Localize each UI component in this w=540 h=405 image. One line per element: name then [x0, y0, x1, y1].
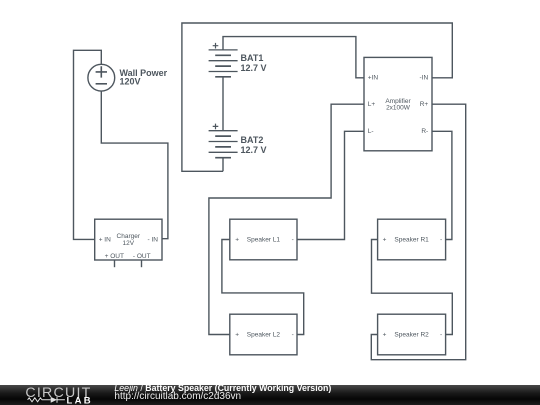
speaker L1 box [230, 219, 297, 260]
wire speaker L1 + to speaker L2 - [222, 240, 304, 335]
voltage source V1 circle [88, 64, 115, 91]
svg-text:2x100W: 2x100W [386, 104, 411, 111]
V1 plus sign [96, 66, 107, 84]
wire V1- bottom to charger -IN [101, 91, 168, 239]
label Charger 12V [117, 233, 141, 247]
label Amplifier 2x100W [385, 98, 411, 112]
wire BAT1+ to amplifier +IN [223, 37, 364, 78]
svg-text:BAT2: BAT2 [241, 135, 264, 145]
speaker R1 box [378, 219, 446, 260]
svg-text:+IN: +IN [368, 75, 379, 82]
speaker R2 box [378, 314, 446, 355]
wire speaker R1 + to speaker R2 - [372, 240, 453, 335]
svg-text:R+: R+ [420, 101, 429, 108]
logo resistor zigzag and diode [28, 397, 65, 403]
svg-text:L-: L- [368, 128, 374, 135]
svg-text:Speaker L2: Speaker L2 [247, 332, 281, 339]
label Speaker L2 with +/- pins [235, 332, 293, 339]
label BAT2 12.7 V [241, 135, 267, 155]
V1 minus sign [96, 83, 107, 85]
svg-text:+ IN: + IN [99, 237, 111, 244]
svg-text:-: - [292, 332, 294, 339]
battery BAT2 plates [209, 124, 238, 158]
label Speaker L1 with +/- pins [235, 237, 293, 244]
label Speaker R1 with +/- pins [383, 237, 443, 244]
svg-text:Speaker R1: Speaker R1 [394, 237, 429, 244]
svg-text:+: + [235, 237, 239, 244]
svg-text:+ OUT: + OUT [105, 253, 124, 260]
svg-text:- OUT: - OUT [133, 253, 151, 260]
wire BAT1- to BAT2+ [222, 77, 224, 131]
svg-text:Speaker R2: Speaker R2 [394, 332, 429, 339]
wire BAT2 bottom terminal [222, 158, 224, 172]
svg-text:+: + [383, 237, 387, 244]
svg-text:-: - [440, 332, 442, 339]
svg-text:12.7 V: 12.7 V [241, 145, 267, 155]
amplifier U1 pin labels [368, 75, 429, 136]
svg-text:L+: L+ [368, 101, 376, 108]
wire V1+ top to left rail to charger +IN [74, 50, 102, 239]
footer url text [114, 392, 241, 402]
wire amplifier L- to speaker L1 - [297, 131, 364, 239]
footer bar [0, 385, 540, 405]
CircuitLab logo [0, 384, 115, 405]
footer title text [114, 384, 331, 393]
label BAT1 12.7 V [241, 53, 267, 73]
svg-text:- IN: - IN [148, 237, 159, 244]
wire BAT2- to outer loop to amplifier -IN [182, 23, 452, 171]
wire amplifier R+ to speaker R2 + [371, 104, 465, 360]
label V1 Wall Power 120V [120, 68, 168, 87]
speaker L2 box [230, 314, 297, 355]
svg-text:-: - [440, 237, 442, 244]
svg-text:Speaker L1: Speaker L1 [247, 237, 281, 244]
amplifier U1 box [364, 57, 432, 150]
BAT2 plus sign [213, 124, 219, 130]
svg-text:LAB: LAB [67, 395, 93, 405]
svg-text:BAT1: BAT1 [241, 53, 264, 63]
charger -OUT stub [141, 260, 143, 267]
svg-text:12V: 12V [123, 240, 135, 247]
svg-text:120V: 120V [120, 76, 141, 86]
charger +OUT stub [114, 260, 116, 267]
svg-text:+: + [383, 332, 387, 339]
wire amplifier L+ to speaker L2 + [209, 104, 364, 334]
charger U2 pin labels [99, 237, 159, 260]
label Speaker R2 with +/- pins [383, 332, 443, 339]
svg-text:-: - [292, 237, 294, 244]
wire amplifier R- to speaker R1 - [432, 131, 452, 239]
battery BAT1 plates [209, 43, 238, 77]
svg-text:Charger: Charger [117, 233, 141, 240]
svg-text:-IN: -IN [420, 75, 429, 82]
charger U2 box [95, 219, 162, 260]
BAT1 plus sign [213, 43, 219, 49]
svg-text:12.7 V: 12.7 V [241, 63, 267, 73]
svg-text:R-: R- [421, 128, 428, 135]
svg-text:+: + [235, 332, 239, 339]
